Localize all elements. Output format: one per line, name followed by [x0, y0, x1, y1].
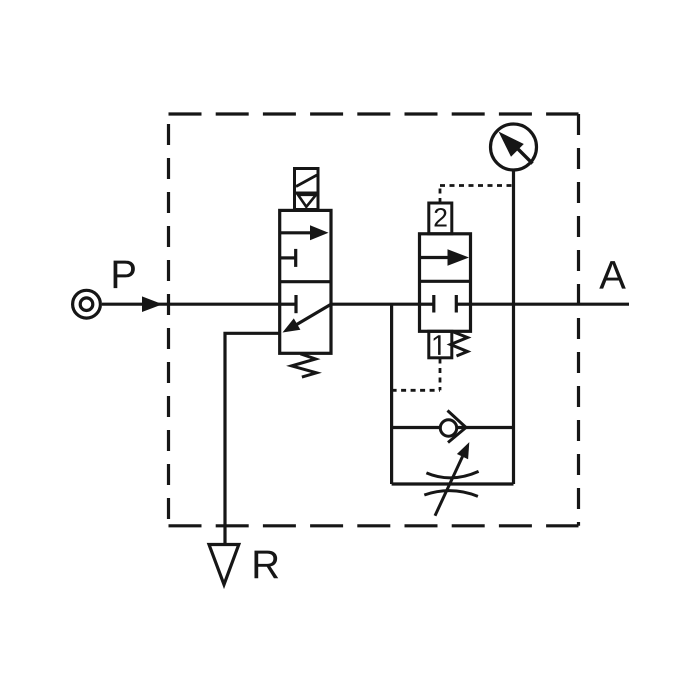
- V2 blocked port right (bottom square): [456, 303, 470, 306]
- throttle adjustment arrow: [435, 457, 463, 516]
- enclosure dashed border right: [577, 114, 580, 526]
- pilot line (dashed) from port 2 to gauge line: [439, 186, 442, 204]
- wire between valve V1 and valve V2: [331, 303, 420, 306]
- label P: [114, 261, 135, 289]
- V2 flow path arrow (top square): [420, 256, 451, 259]
- valve V1 body (3/2 solenoid valve): [280, 210, 331, 353]
- exhaust triangle R: [209, 545, 239, 585]
- pressure gauge G1: [491, 124, 537, 170]
- wire P supply line: [102, 303, 280, 306]
- enclosure dashed border top: [169, 112, 579, 115]
- wire flow-control bottom path: [392, 482, 514, 485]
- label R: [254, 551, 278, 579]
- V1 exhaust path diagonal arrow (bottom square): [295, 304, 331, 325]
- label A: [599, 261, 626, 289]
- flow direction arrow on P line: [142, 296, 163, 312]
- V1 blocked port (top square): [280, 256, 296, 259]
- wire to port A: [471, 303, 630, 306]
- solenoid actuator of V1: [295, 169, 319, 210]
- throttle restriction arcs: [426, 471, 478, 477]
- V2 blocked port left (bottom square): [420, 303, 434, 306]
- label port 2 digit: [435, 208, 447, 227]
- wire check valve path: [392, 426, 514, 429]
- wire branch line down from main pipe: [390, 304, 393, 484]
- wire gauge stem line: [512, 171, 515, 484]
- V2 port 1 box: [429, 331, 452, 358]
- check valve CV1: [440, 420, 456, 436]
- spring of V2: [451, 332, 468, 356]
- pilot line (dashed) from port 1 to branch line: [439, 359, 442, 391]
- V1 blocked port (bottom square): [280, 303, 296, 306]
- V2 port 2 box: [429, 203, 452, 234]
- valve V2 body (pressure regulator): [420, 234, 471, 331]
- enclosure dashed border left: [167, 114, 170, 526]
- port P symbol (double circle): [73, 290, 101, 318]
- spring of V1: [292, 354, 317, 377]
- wire V1 exhaust to R: [225, 333, 281, 544]
- label port 1 digit: [434, 335, 441, 355]
- V1 flow path arrow (top square): [280, 231, 314, 234]
- enclosure dashed border bottom: [169, 524, 579, 527]
